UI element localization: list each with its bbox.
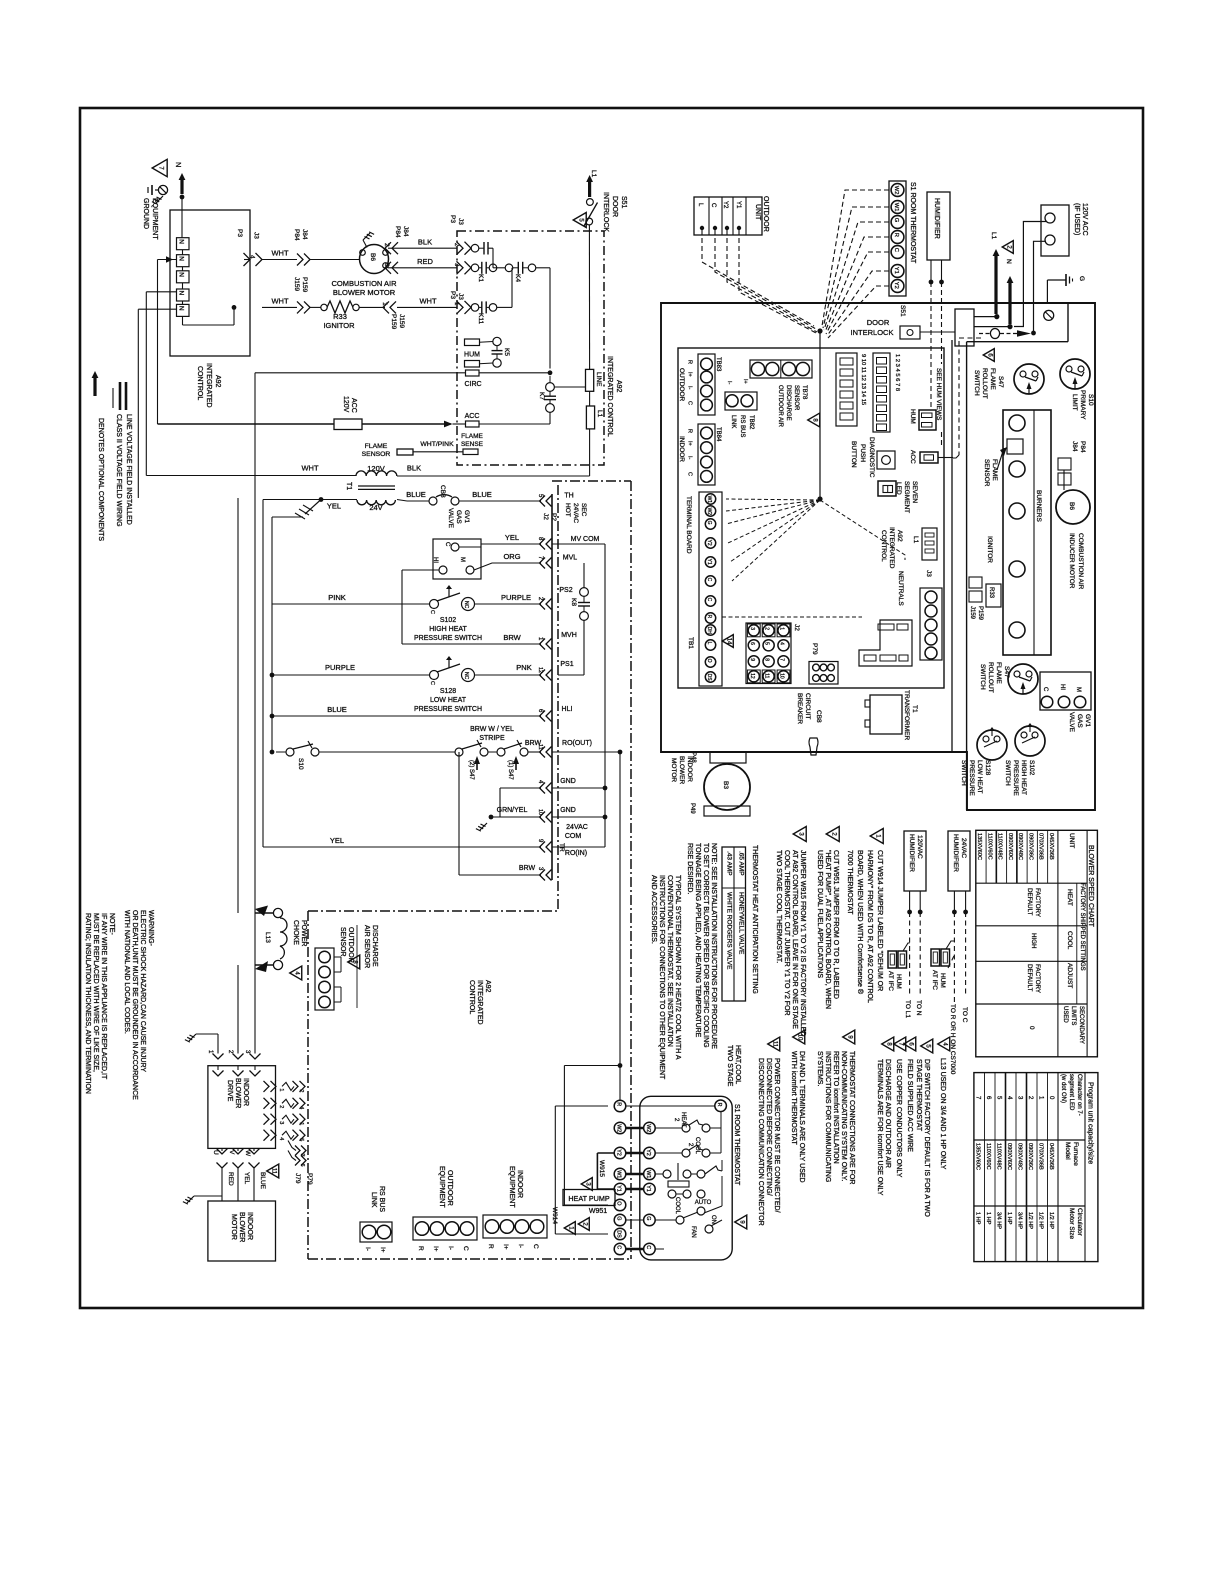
svg-text:C: C xyxy=(532,1244,539,1249)
svg-text:MV COM: MV COM xyxy=(571,536,600,543)
svg-text:9 10 11 12 13 14 15: 9 10 11 12 13 14 15 xyxy=(860,354,866,405)
svg-text:SENSOR: SENSOR xyxy=(793,385,799,411)
svg-text:DH AND L TERMINALS ARE ONLY US: DH AND L TERMINALS ARE ONLY USED xyxy=(798,1051,805,1183)
120V ACC receptacle (if used) xyxy=(1041,205,1069,256)
svg-text:R: R xyxy=(687,360,693,364)
CIRC spade terminal xyxy=(466,370,480,376)
svg-text:L13: L13 xyxy=(264,932,271,943)
svg-text:11: 11 xyxy=(270,1168,276,1175)
svg-text:BLOWER: BLOWER xyxy=(234,1078,241,1108)
svg-text:G: G xyxy=(615,1216,621,1220)
power entry box xyxy=(955,309,974,346)
svg-text:2: 2 xyxy=(278,1105,284,1108)
svg-text:I-: I- xyxy=(726,381,732,385)
wire: gnd bus right xyxy=(552,787,605,789)
P2 connector line xyxy=(551,494,553,880)
contact K7 xyxy=(546,383,555,392)
svg-text:INDOOR: INDOOR xyxy=(516,1170,523,1198)
HUM accessory terminal xyxy=(919,410,936,430)
svg-text:CUT W914 JUMPER LABELED "DEHUM: CUT W914 JUMPER LABELED "DEHUM OR xyxy=(876,850,883,991)
svg-text:C: C xyxy=(687,401,693,405)
svg-text:HARMONY" FROM DS TO R, AT A92: HARMONY" FROM DS TO R, AT A92 CONTROL xyxy=(866,850,873,1003)
svg-text:MVH: MVH xyxy=(561,632,577,639)
dashed humidifier 24 wires xyxy=(953,912,955,1002)
svg-text:CB8: CB8 xyxy=(439,485,446,498)
svg-text:DENOTES OPTIONAL COMPONENTS: DENOTES OPTIONAL COMPONENTS xyxy=(97,418,104,541)
svg-text:N: N xyxy=(178,306,185,311)
svg-text:C: C xyxy=(645,1245,651,1249)
svg-text:HI: HI xyxy=(432,557,438,563)
svg-text:TYPICAL SYSTEM SHOWN FOR 2 HEA: TYPICAL SYSTEM SHOWN FOR 2 HEAT/2 COOL W… xyxy=(674,875,681,1060)
svg-text:24VAC: 24VAC xyxy=(566,824,588,831)
svg-text:G: G xyxy=(1078,276,1085,281)
svg-text:SENSE: SENSE xyxy=(461,441,484,448)
svg-text:C: C xyxy=(710,203,716,208)
svg-text:A92: A92 xyxy=(615,380,622,393)
note power connector xyxy=(768,1037,780,1051)
svg-text:NOTE: SEE INSTALLATION INSTRUC: NOTE: SEE INSTALLATION INSTRUCTIONS FOR … xyxy=(710,843,717,1049)
svg-text:K1: K1 xyxy=(477,274,484,282)
svg-text:2: 2 xyxy=(298,1089,304,1092)
svg-text:AUTO: AUTO xyxy=(695,1200,712,1206)
svg-text:SEGMENT: SEGMENT xyxy=(903,481,910,513)
connector J2 grid xyxy=(778,625,789,636)
wire: YEL 24VAC COM xyxy=(263,846,541,848)
connector P159/J159 pin1 xyxy=(390,301,396,313)
note 5 dip switch xyxy=(921,1039,933,1053)
svg-text:J3: J3 xyxy=(253,232,260,239)
svg-text:P3: P3 xyxy=(236,229,243,237)
svg-text:LINK: LINK xyxy=(730,415,736,428)
svg-text:DIAGNOSTIC: DIAGNOSTIC xyxy=(868,437,875,478)
svg-text:Character on 7-: Character on 7- xyxy=(1076,1074,1082,1116)
svg-text:4: 4 xyxy=(298,1106,304,1109)
svg-text:J84: J84 xyxy=(1071,441,1078,452)
svg-text:12: 12 xyxy=(749,673,755,679)
transformer T1 (unit) xyxy=(870,695,902,734)
connector P2 pin2 PS2 xyxy=(546,599,552,610)
wire: HI to S102 node xyxy=(402,569,439,571)
svg-text:J159: J159 xyxy=(293,277,300,291)
svg-text:0: 0 xyxy=(1028,1026,1035,1030)
note DH and L terminals xyxy=(793,1030,805,1044)
svg-text:SECONDARY: SECONDARY xyxy=(1078,1006,1084,1044)
svg-text:HUM: HUM xyxy=(909,409,916,424)
svg-text:CONVENTIONAL THERMOSTAT. SEE I: CONVENTIONAL THERMOSTAT. SEE INSTALLATIO… xyxy=(666,875,673,1047)
thermostat cool2 contact xyxy=(682,1149,690,1157)
wire: K11 out up to K4 node xyxy=(497,306,512,308)
terminal TB84 indoor xyxy=(698,424,715,485)
svg-text:RO(IN): RO(IN) xyxy=(565,850,587,857)
svg-text:NEUTRALS: NEUTRALS xyxy=(897,571,904,606)
svg-text:.43 AMP: .43 AMP xyxy=(726,851,733,876)
svg-text:S1 ROOM THERMOSTAT: S1 ROOM THERMOSTAT xyxy=(733,1104,740,1186)
svg-text:TO SET CORRECT BLOWER SPEED FO: TO SET CORRECT BLOWER SPEED FOR SPECIFIC… xyxy=(702,843,709,1048)
svg-text:TB78: TB78 xyxy=(801,385,807,400)
combustion air blower motor B6 xyxy=(360,245,389,274)
svg-text:090XV48C: 090XV48C xyxy=(1017,833,1023,860)
svg-text:1: 1 xyxy=(278,1088,284,1091)
svg-text:RISE DESIRED.: RISE DESIRED. xyxy=(686,843,693,894)
svg-text:W914: W914 xyxy=(551,1207,558,1224)
indoor blower drive box xyxy=(208,1066,276,1149)
svg-text:NOTE-: NOTE- xyxy=(108,913,115,935)
svg-text:S47: S47 xyxy=(997,376,1004,388)
wire: RO(OUT) to thermostat R rail xyxy=(552,751,620,753)
svg-text:COM: COM xyxy=(565,833,582,840)
svg-text:L1: L1 xyxy=(596,410,603,418)
connector P2 pin1 MVH xyxy=(546,639,552,650)
svg-text:IGNITOR: IGNITOR xyxy=(986,536,993,563)
svg-text:1/2 HP: 1/2 HP xyxy=(1037,1212,1043,1229)
terminal board TB1 xyxy=(699,492,722,686)
resistor R33 ignitor xyxy=(321,304,327,310)
svg-text:AIR SENSOR: AIR SENSOR xyxy=(363,925,370,968)
LED window xyxy=(878,481,896,496)
svg-text:120V: 120V xyxy=(342,396,349,413)
svg-text:070XV36B: 070XV36B xyxy=(1038,833,1044,860)
svg-text:I+: I+ xyxy=(687,372,693,377)
circuit breaker CB8 xyxy=(429,497,437,505)
svg-text:045XV36B: 045XV36B xyxy=(1048,1143,1054,1170)
svg-text:C: C xyxy=(429,681,435,685)
svg-text:WHT: WHT xyxy=(301,464,318,473)
svg-text:J2: J2 xyxy=(793,624,800,631)
ACC spade terminal xyxy=(466,421,480,427)
svg-text:W2: W2 xyxy=(893,186,899,195)
svg-text:GAS: GAS xyxy=(455,510,462,524)
outdoor equipment connector xyxy=(413,1217,477,1240)
24VAC humidifier box xyxy=(948,831,970,891)
border frame xyxy=(80,108,1143,1308)
svg-text:P3: P3 xyxy=(449,291,456,299)
connector P2 pin10 GND GRN/YEL xyxy=(491,816,541,818)
svg-text:LINE VOLTAGE FIELD INSTALLED: LINE VOLTAGE FIELD INSTALLED xyxy=(125,414,132,525)
dashed wires outdoor unit to splice xyxy=(702,230,814,326)
low heat pressure switch S128 xyxy=(977,730,1007,760)
wire: splice to control fan xyxy=(819,331,821,499)
svg-text:WHT/PINK: WHT/PINK xyxy=(420,441,454,448)
wire: 24V secondary to CB8 xyxy=(319,497,324,502)
svg-text:Furnace: Furnace xyxy=(1072,1142,1079,1166)
svg-text:P79: P79 xyxy=(306,1173,313,1185)
svg-text:TO C: TO C xyxy=(961,1007,968,1023)
svg-text:R: R xyxy=(893,233,899,237)
svg-text:BLOWER: BLOWER xyxy=(238,1212,245,1242)
connector P84/J84 right of motor pin2 xyxy=(388,247,400,249)
outdoor unit box xyxy=(694,197,762,235)
neutral terminals N1-N5 xyxy=(177,238,190,250)
svg-text:090XV48C: 090XV48C xyxy=(1016,1143,1022,1170)
wire: neutral string to P3-5 xyxy=(182,316,184,325)
svg-text:HUM: HUM xyxy=(464,352,480,359)
svg-text:DEFAULT: DEFAULT xyxy=(1026,888,1033,916)
wire: secondary hot to CB8 xyxy=(397,500,407,502)
svg-text:PINK: PINK xyxy=(328,593,346,602)
wire: PNK S128 to PS1 xyxy=(475,674,542,676)
svg-text:INDOOR: INDOOR xyxy=(246,1212,253,1240)
svg-text:ACC: ACC xyxy=(350,398,357,413)
svg-text:.65 AMP: .65 AMP xyxy=(738,851,745,876)
svg-text:WHT: WHT xyxy=(271,297,288,306)
svg-text:110XV48C: 110XV48C xyxy=(997,833,1003,860)
wire: YEL MV COM xyxy=(459,546,481,548)
power choke L13 xyxy=(273,908,282,917)
svg-text:HEAT PUMP: HEAT PUMP xyxy=(568,1194,609,1203)
svg-text:11: 11 xyxy=(771,1041,777,1048)
svg-text:A92: A92 xyxy=(896,530,903,542)
svg-text:SWITCH: SWITCH xyxy=(1004,760,1011,786)
svg-text:UNIT: UNIT xyxy=(754,204,761,221)
svg-text:INTERLOCK: INTERLOCK xyxy=(851,328,894,337)
svg-text:BUTTON: BUTTON xyxy=(850,441,857,468)
svg-text:N: N xyxy=(178,272,185,277)
svg-text:Y1: Y1 xyxy=(735,201,741,209)
contact K1 (RED row) xyxy=(471,264,479,272)
connector L1 header xyxy=(922,528,937,560)
svg-text:1/2 HP: 1/2 HP xyxy=(1048,1212,1054,1229)
svg-text:10: 10 xyxy=(796,1034,802,1041)
svg-text:J3: J3 xyxy=(457,293,464,300)
pressure switch S102 high heat xyxy=(430,600,439,609)
contact K11 xyxy=(471,304,479,312)
wire: WHT to J3-1 xyxy=(397,306,457,308)
svg-text:NC: NC xyxy=(463,601,469,609)
left rail 24V return xyxy=(262,500,264,848)
svg-text:K8: K8 xyxy=(570,598,577,606)
gas valve HI/C/M box xyxy=(433,539,481,579)
circuit breaker CB8 (unit) xyxy=(809,738,818,755)
svg-text:HEAT: HEAT xyxy=(1066,889,1073,906)
svg-text:CONTROL: CONTROL xyxy=(880,530,887,562)
svg-text:INTEGRATED CONTROL: INTEGRATED CONTROL xyxy=(606,356,613,437)
svg-text:GND: GND xyxy=(560,807,576,814)
wire: PURPLE to S128 xyxy=(270,673,275,678)
svg-text:W951: W951 xyxy=(589,1208,607,1215)
svg-text:S128: S128 xyxy=(440,688,456,695)
wire splice fan point xyxy=(817,328,822,333)
svg-text:6: 6 xyxy=(749,642,755,645)
svg-text:P49: P49 xyxy=(689,803,695,814)
warning triangle at TB1 xyxy=(722,635,733,648)
unit cabinet outline xyxy=(661,303,1095,810)
svg-text:USED: USED xyxy=(1062,1006,1068,1023)
wire: 24VAC COM bus xyxy=(604,544,606,847)
connector P2 pin12 PS1 xyxy=(546,670,552,681)
ignitor resistor R33 xyxy=(986,584,1001,607)
svg-text:OUTDOOR: OUTDOOR xyxy=(762,196,769,232)
svg-text:3/4 HP: 3/4 HP xyxy=(995,1212,1001,1229)
svg-text:LOW HEAT: LOW HEAT xyxy=(430,697,467,704)
connector J159/P159 (unit) xyxy=(969,577,982,588)
svg-text:TERMINAL BOARD: TERMINAL BOARD xyxy=(685,496,692,554)
svg-text:Model: Model xyxy=(1064,1142,1071,1160)
dashed wire fan to HUM connector xyxy=(820,500,905,560)
svg-text:TRANSFORMER: TRANSFORMER xyxy=(903,690,910,741)
svg-text:IGNITOR: IGNITOR xyxy=(323,321,355,330)
svg-text:DH: DH xyxy=(706,627,712,635)
svg-text:HUMIDIFIER: HUMIDIFIER xyxy=(908,834,915,872)
svg-text:11: 11 xyxy=(537,744,543,750)
svg-text:JUMPER W915 FROM Y1 TO Y2 IS F: JUMPER W915 FROM Y1 TO Y2 IS FACTORY INS… xyxy=(799,850,806,1036)
svg-text:O: O xyxy=(706,659,712,663)
svg-text:C: C xyxy=(706,598,712,602)
svg-text:090XV36C: 090XV36C xyxy=(1027,1143,1033,1170)
svg-text:"HEAT PUMP", AT A92 CONTROL BO: "HEAT PUMP", AT A92 CONTROL BOARD, WHEN xyxy=(824,850,831,1009)
svg-text:BLOWER: BLOWER xyxy=(678,756,685,784)
svg-text:G: G xyxy=(706,521,712,525)
svg-text:BRW: BRW xyxy=(503,633,521,642)
burner compartment divider xyxy=(966,342,968,810)
svg-text:3: 3 xyxy=(383,263,390,267)
svg-text:1 HP: 1 HP xyxy=(985,1212,991,1225)
svg-text:LINK: LINK xyxy=(370,1192,377,1208)
svg-text:110XV60C: 110XV60C xyxy=(985,1143,991,1170)
svg-text:LED: LED xyxy=(895,482,902,495)
warning triangle 9 xyxy=(735,1215,747,1229)
svg-text:B6: B6 xyxy=(1068,502,1075,510)
svg-text:HIGH HEAT: HIGH HEAT xyxy=(429,626,467,633)
thermostat heat2 contact xyxy=(682,1124,690,1132)
svg-text:L13 USED ON 3/4 AND 1 HP ONLY: L13 USED ON 3/4 AND 1 HP ONLY xyxy=(939,1058,946,1170)
svg-text:INDOOR: INDOOR xyxy=(242,1078,249,1106)
svg-text:CHOKE: CHOKE xyxy=(292,920,299,945)
svg-text:24VAC: 24VAC xyxy=(572,503,579,523)
svg-text:C: C xyxy=(444,542,450,547)
svg-text:LOW HEAT: LOW HEAT xyxy=(976,760,983,793)
svg-text:C: C xyxy=(893,248,899,252)
svg-text:P3: P3 xyxy=(449,215,456,223)
svg-text:DS: DS xyxy=(615,1230,621,1238)
svg-text:9: 9 xyxy=(749,658,755,661)
svg-text:R: R xyxy=(687,429,693,433)
svg-text:120VAC: 120VAC xyxy=(916,835,923,859)
gas valve GV1 xyxy=(1040,672,1091,710)
svg-text:N: N xyxy=(174,162,183,167)
wire: RO(IN) riser xyxy=(458,752,460,875)
svg-text:090XV60C: 090XV60C xyxy=(1007,833,1013,860)
RS bus link connector xyxy=(360,1222,392,1242)
svg-text:WITH icomfort THERMOSTAT: WITH icomfort THERMOSTAT xyxy=(790,1051,797,1145)
thermostat fan switch xyxy=(676,1216,684,1224)
svg-text:INTEGRATED: INTEGRATED xyxy=(888,527,895,569)
svg-text:OR DEATH,UNIT MUST BE GROUNDED: OR DEATH,UNIT MUST BE GROUNDED IN ACCORD… xyxy=(131,910,138,1100)
svg-text:TWO STAGE COOL THERMOSTAT.: TWO STAGE COOL THERMOSTAT. xyxy=(775,850,782,963)
hum at ifc connector (24) xyxy=(931,949,940,966)
svg-text:PURPLE: PURPLE xyxy=(325,663,355,672)
svg-text:4: 4 xyxy=(779,642,785,645)
svg-text:J3: J3 xyxy=(925,570,932,577)
svg-text:W915: W915 xyxy=(598,1160,605,1177)
svg-text:R33: R33 xyxy=(988,587,994,599)
svg-text:BREAKER: BREAKER xyxy=(796,693,803,724)
control fan point xyxy=(817,496,822,501)
svg-text:W2: W2 xyxy=(615,1124,621,1132)
svg-text:8: 8 xyxy=(764,658,770,661)
dip switch block xyxy=(873,353,890,432)
svg-text:POWER CONNECTOR MUST BE CONNEC: POWER CONNECTOR MUST BE CONNECTED/ xyxy=(773,1058,780,1213)
svg-text:S10: S10 xyxy=(297,758,304,770)
contact K1 upper (BLK row) xyxy=(471,244,479,252)
svg-text:4: 4 xyxy=(278,1137,284,1140)
flame rollout switch S47 (top) xyxy=(1014,364,1044,394)
svg-text:V: V xyxy=(228,1150,235,1155)
L1 fuse xyxy=(586,406,594,429)
note 3 jumper W915 xyxy=(793,826,806,841)
chassis tap symbol xyxy=(305,500,321,515)
wire: PURPLE S102 to PS2 xyxy=(475,603,542,605)
heat pump terminal strip circles xyxy=(614,1100,626,1112)
svg-text:P159: P159 xyxy=(301,277,308,293)
svg-text:DOOR: DOOR xyxy=(867,318,890,327)
svg-text:VALVE: VALVE xyxy=(447,508,454,529)
svg-text:SENSOR: SENSOR xyxy=(339,927,346,957)
svg-text:3: 3 xyxy=(749,627,755,630)
A92 dash-dot boundary (low voltage) xyxy=(557,485,559,911)
seven segment display block xyxy=(836,353,857,426)
svg-text:CLASS II VOLTAGE FIELD WIRING: CLASS II VOLTAGE FIELD WIRING xyxy=(115,414,122,527)
svg-text:HI: HI xyxy=(1059,684,1065,690)
svg-text:P84: P84 xyxy=(394,226,401,238)
svg-text:PRESSURE SWITCH: PRESSURE SWITCH xyxy=(414,706,482,713)
svg-text:DISCHARGE AND OUTDOOR AIR: DISCHARGE AND OUTDOOR AIR xyxy=(884,1059,891,1168)
svg-text:I-: I- xyxy=(517,1244,524,1248)
S1 room thermostat terminal strip (top) xyxy=(889,181,906,296)
svg-text:R: R xyxy=(716,1103,722,1107)
svg-text:I+: I+ xyxy=(502,1244,509,1250)
svg-text:PRESSURE SWITCH: PRESSURE SWITCH xyxy=(414,635,482,642)
S1 room thermostat outline xyxy=(640,1096,732,1260)
warning triangle 7 xyxy=(152,159,167,176)
indoor blower motor box xyxy=(208,1201,276,1261)
svg-text:Y1: Y1 xyxy=(706,559,712,565)
svg-text:AT A92 CONTROL BOARD, LEAVE IN: AT A92 CONTROL BOARD, LEAVE IN FOR ONE S… xyxy=(791,850,798,1029)
diagnostic push button xyxy=(877,451,895,469)
svg-text:O: O xyxy=(615,1201,621,1205)
indoor equipment connector xyxy=(483,1215,547,1238)
elbow to hum at ifc (24) xyxy=(946,941,954,949)
wire: ORG MVL xyxy=(474,563,541,570)
LINE fuse xyxy=(586,369,594,391)
svg-text:ACC: ACC xyxy=(465,413,480,420)
contact K5 xyxy=(493,337,501,345)
svg-text:BLOWER SPEED CHART: BLOWER SPEED CHART xyxy=(1087,845,1094,928)
svg-text:W1: W1 xyxy=(645,1170,651,1178)
svg-text:INDOOR: INDOOR xyxy=(686,756,693,782)
outdoor / discharge air sensor connector xyxy=(315,948,334,1010)
svg-text:U: U xyxy=(212,1150,219,1155)
wire: PINK to S102 xyxy=(272,603,430,605)
svg-text:Y2: Y2 xyxy=(893,282,899,289)
svg-text:TERMINALS ARE FOR icomfort USE: TERMINALS ARE FOR icomfort USE ONLY xyxy=(876,1059,883,1196)
wire: left rail R3 to N5 xyxy=(138,308,176,310)
wire: K4 out to inducer bus xyxy=(536,267,550,269)
svg-text:TO N: TO N xyxy=(915,1000,922,1016)
svg-text:YEL: YEL xyxy=(505,533,519,542)
svg-text:R: R xyxy=(417,1246,424,1251)
svg-text:MOTOR: MOTOR xyxy=(670,758,677,782)
svg-text:COMBUSTION AIR: COMBUSTION AIR xyxy=(331,279,397,288)
svg-text:EQUIPMENT: EQUIPMENT xyxy=(438,1166,445,1208)
svg-text:N: N xyxy=(178,256,185,261)
svg-text:P84: P84 xyxy=(1079,441,1086,453)
terminal TB82 rs bus link xyxy=(725,392,757,410)
svg-text:RATING; INSULATION THICKNESS,: RATING; INSULATION THICKNESS, AND TERMIN… xyxy=(84,913,91,1094)
svg-text:K4: K4 xyxy=(514,274,521,282)
svg-text:PRESSURE: PRESSURE xyxy=(1012,760,1019,796)
wire: K7 top to LINE fuse xyxy=(554,386,585,388)
wire: left rail R1 to N2 xyxy=(158,259,177,261)
